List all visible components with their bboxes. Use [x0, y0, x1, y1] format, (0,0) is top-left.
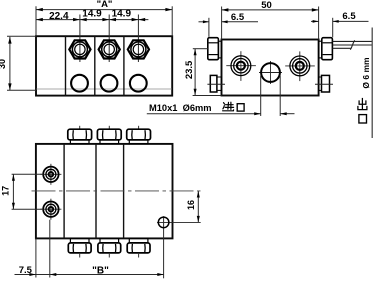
dim label 30 — [0, 59, 7, 69]
lower-left plug — [207, 75, 225, 92]
inlet boss extension lines down — [261, 76, 281, 117]
dim label 50 — [261, 0, 272, 11]
upper-left bolt head — [208, 38, 222, 60]
dim label 22.4 — [49, 11, 69, 22]
dim 6.5 right — [311, 18, 369, 38]
block outline top view — [36, 36, 172, 95]
bottom bolt 3 — [127, 238, 150, 257]
dim 50 line — [222, 8, 319, 11]
block outline side view — [222, 40, 319, 96]
dim 17 line — [12, 174, 15, 209]
dim row 22.4/14.9/14.9 line — [36, 18, 148, 21]
port circle 2 — [101, 75, 118, 92]
dim A extension lines — [36, 6, 172, 36]
front division 2 — [95, 144, 97, 239]
division line 3 — [123, 36, 125, 95]
svg-text:"B": "B" — [92, 265, 109, 276]
svg-text:14.9: 14.9 — [82, 9, 102, 20]
hex nut 2 — [99, 40, 120, 58]
dim 30 line — [8, 37, 11, 90]
division line 1 — [65, 36, 67, 95]
dim label 14.9 second — [112, 9, 132, 20]
svg-text:22.4: 22.4 — [49, 11, 69, 22]
label M10x1 Ø6mm — [149, 103, 212, 113]
dim label 16 — [186, 200, 196, 210]
lower-right plug — [315, 75, 333, 92]
front division 1 — [63, 144, 65, 239]
front division 3 — [123, 144, 125, 239]
faint inner edge line — [37, 88, 172, 90]
dim 30 extension lines — [7, 36, 36, 90]
centerline dash-dot — [32, 190, 201, 192]
svg-text:7.5: 7.5 — [19, 265, 33, 276]
upper port crossed circle — [40, 164, 61, 185]
dim label 6.5 right — [342, 11, 356, 22]
dim 7.5 and B shared line — [15, 273, 164, 276]
svg-text:16: 16 — [186, 200, 196, 210]
svg-text:Ø 6 mm: Ø 6 mm — [361, 57, 371, 89]
top bolt 2 — [97, 126, 121, 144]
block outline front view — [36, 144, 173, 239]
bottom dim extension verticals — [36, 220, 50, 278]
top bolt 3 — [127, 126, 151, 144]
hex nut 3 — [128, 40, 149, 58]
dim A line — [36, 8, 172, 11]
svg-text:50: 50 — [261, 0, 272, 11]
lower port crossed circle — [40, 199, 61, 220]
nut 1 centerline — [79, 15, 81, 63]
dim 50 extension lines — [222, 7, 319, 40]
dim 23.5 line — [194, 49, 197, 96]
dim 23.5 extension top — [193, 48, 208, 50]
svg-text:30: 30 — [0, 59, 7, 69]
dim 17 extension lines — [12, 174, 44, 209]
top bolt 1 — [68, 126, 92, 144]
svg-text:23.5: 23.5 — [184, 60, 195, 79]
label 进口 (inlet) hand-drawn glyphs — [223, 102, 244, 111]
crossed port circle right — [285, 51, 315, 81]
middle inlet circle — [259, 61, 282, 84]
svg-text:6.5: 6.5 — [231, 12, 245, 23]
bottom bolt 1 — [68, 238, 91, 257]
label Ø 6 mm rotated — [361, 57, 371, 89]
small outlet circle — [157, 216, 201, 278]
dim label 6.5 left — [231, 12, 245, 23]
dim label B — [92, 265, 109, 276]
dim M10 line — [147, 112, 295, 115]
crossed port circle left — [226, 51, 256, 81]
svg-text:17: 17 — [1, 186, 11, 196]
label 出口 (outlet) hand-drawn glyphs — [358, 98, 367, 123]
dim label 7.5 — [19, 265, 33, 276]
nut 2 centerline — [108, 15, 110, 63]
bottom bolt 2 — [98, 238, 121, 257]
port circle 3 — [130, 75, 147, 92]
upper-right bolt head — [319, 38, 333, 60]
nut 3 centerline — [137, 15, 139, 63]
dim label 14.9 first — [82, 9, 102, 20]
svg-text:6.5: 6.5 — [342, 11, 356, 22]
port circle 1 — [71, 75, 88, 92]
dim label 23.5 — [184, 60, 195, 79]
svg-text:M10x1 Ø6mm: M10x1 Ø6mm — [149, 103, 212, 113]
division line 2 — [94, 36, 96, 95]
svg-text:14.9: 14.9 — [112, 9, 132, 20]
dim 6.5 left — [199, 18, 259, 37]
dim label 17 — [1, 186, 11, 196]
dim A label — [97, 0, 113, 10]
dim 16 line — [197, 191, 200, 222]
outlet pipe — [333, 40, 373, 49]
bottom edge extension to left (for 23.5) — [193, 95, 222, 97]
outlet extension line — [371, 28, 373, 139]
hex nut 1 — [69, 40, 90, 58]
